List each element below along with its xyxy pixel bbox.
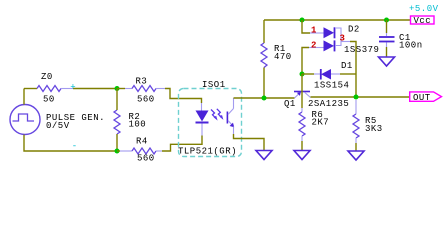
LED of ISO1	[196, 111, 209, 123]
node C junction dot	[262, 96, 267, 101]
light arrow 1	[211, 110, 218, 121]
svg-text:R4: R4	[136, 137, 148, 147]
svg-text:R3: R3	[136, 77, 148, 87]
pin lead R3 left	[125, 88, 132, 90]
pin lead LED cathode	[201, 124, 203, 136]
light arrow 2	[217, 109, 224, 120]
svg-text:1SS379: 1SS379	[344, 45, 379, 55]
node F junction dot OUT	[354, 95, 359, 100]
pin lead phottransistor collector	[233, 98, 235, 109]
pin lead LED anode	[201, 103, 203, 111]
node A junction dot	[115, 86, 120, 91]
svg-text:3K3: 3K3	[365, 124, 383, 134]
svg-text:Q1: Q1	[284, 99, 296, 109]
transistor Q1	[294, 91, 311, 98]
diode D1	[321, 69, 331, 80]
optocoupler ISO1 dashed box	[179, 89, 242, 157]
pin lead D2 pin2	[309, 47, 325, 49]
pin lead D1 cathode	[314, 73, 321, 75]
svg-text:100n: 100n	[399, 41, 423, 51]
wire pulse gen bottom lead	[24, 135, 117, 151]
svg-text:+5.0V: +5.0V	[409, 4, 439, 14]
label PULSE GEN. 0/5V	[46, 113, 105, 131]
node E junction dot D1 anode base	[300, 72, 305, 77]
svg-text:2SA1235: 2SA1235	[308, 99, 349, 109]
phototransistor of ISO1	[227, 109, 235, 128]
svg-text:470: 470	[274, 52, 292, 62]
pulse generator source V1 circle	[10, 105, 40, 135]
wire node E to D1	[302, 73, 314, 75]
wire R1 bottom	[263, 68, 265, 99]
ground G1	[256, 151, 272, 160]
node B junction dot	[115, 149, 120, 154]
svg-text:ISO1: ISO1	[202, 80, 226, 90]
ground G3	[348, 151, 364, 160]
wire C1 top	[386, 20, 388, 33]
pin lead D1 anode	[331, 73, 340, 75]
wire D2 pin3 to OUT node	[350, 42, 356, 98]
power port Vcc	[411, 16, 435, 26]
wire R6 to ground	[301, 141, 303, 151]
svg-text:+: +	[70, 82, 76, 92]
pin lead C1 bottom	[386, 43, 388, 48]
wire pulse gen top lead	[23, 89, 25, 105]
wire D1 anode to pin3 net	[340, 73, 356, 75]
pin lead phototransistor emitter	[233, 127, 235, 135]
wire D2 pin2 jog	[302, 48, 309, 75]
node D junction dot on top rail	[300, 18, 305, 23]
resistor R1	[261, 43, 267, 68]
svg-text:50: 50	[43, 95, 55, 105]
svg-text:TLP521(GR): TLP521(GR)	[178, 147, 237, 157]
resistor R6	[299, 112, 305, 136]
svg-text:D2: D2	[348, 25, 360, 35]
svg-text:0/5V: 0/5V	[46, 121, 70, 131]
wire collector to Q1 emitter	[234, 97, 295, 99]
wire R4 to LED cathode jog	[156, 150, 162, 152]
resistor R2	[114, 110, 120, 134]
pin lead R5 top	[355, 100, 357, 114]
svg-text:-: -	[72, 141, 78, 151]
svg-text:560: 560	[137, 154, 155, 164]
resistor R4	[132, 148, 156, 154]
pin lead C1 top	[386, 33, 388, 36]
resistor Z0	[37, 86, 61, 92]
svg-text:1: 1	[311, 26, 317, 36]
svg-text:2K7: 2K7	[312, 117, 330, 127]
wire R1 top	[263, 20, 265, 43]
wire R5 to ground	[355, 143, 357, 151]
wire R2 to bottom rail	[116, 134, 118, 151]
capacitor C1	[379, 37, 395, 42]
diode D2 dual common cathode	[324, 27, 342, 51]
svg-text:1SS154: 1SS154	[314, 81, 349, 91]
pin lead R5 bottom	[355, 138, 357, 143]
wire R3 to LED anode jog	[165, 89, 202, 104]
wire emitter to ground	[234, 134, 265, 151]
wire node A to R3	[117, 88, 125, 90]
ground G4	[379, 57, 395, 66]
svg-text:D1: D1	[341, 61, 353, 71]
wire top rail	[264, 19, 411, 21]
pin lead D2 pin3	[341, 41, 350, 43]
wire D2 pin1 jog	[302, 20, 310, 33]
svg-text:Vcc: Vcc	[414, 16, 432, 26]
wire Q1 base vertical	[301, 74, 303, 108]
pin lead R6 top	[301, 108, 303, 112]
node G junction dot C1	[384, 18, 389, 23]
wire node A to R2	[116, 89, 118, 111]
wire Z0 to node A	[61, 88, 73, 90]
svg-text:OUT: OUT	[413, 93, 431, 103]
ground G2	[294, 151, 310, 160]
svg-text:Z0: Z0	[41, 72, 53, 82]
svg-text:2: 2	[311, 40, 317, 50]
wire top left rail	[24, 88, 37, 90]
output port OUT	[410, 92, 442, 103]
wire C1 to ground	[386, 47, 388, 57]
svg-text:3: 3	[340, 34, 346, 44]
resistor R5	[353, 114, 359, 138]
pin lead D2 pin1	[310, 32, 325, 34]
wire Q1 collector to OUT	[311, 96, 410, 98]
svg-text:560: 560	[137, 95, 155, 105]
resistor R3	[132, 86, 156, 92]
svg-text:100: 100	[129, 120, 147, 130]
wire node B to R4	[117, 150, 120, 152]
pin lead R6 bottom	[301, 136, 303, 141]
pin lead R3 right	[156, 88, 165, 90]
